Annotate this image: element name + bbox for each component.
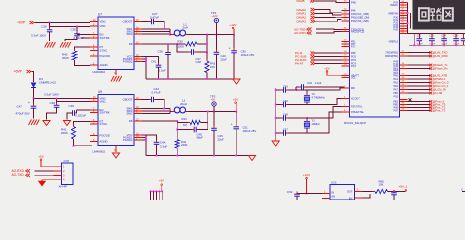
capacitor C4A 3.3uF (VCC bypass 2) xyxy=(146,135,157,142)
svg-text:C52: C52 xyxy=(287,190,293,194)
svg-text:2uH: 2uH xyxy=(183,26,188,30)
wire input rail to U9 VIN xyxy=(34,98,91,100)
junction rail left xyxy=(413,44,415,46)
wire OUT to resistor xyxy=(363,191,376,193)
svg-text:+12V: +12V xyxy=(229,23,236,27)
wire PA-AT to MCU xyxy=(315,63,342,65)
wire +12V output rail xyxy=(207,34,234,36)
node @Rxx-On_1 xyxy=(429,85,432,88)
ground (hatched) under C30 xyxy=(60,42,71,48)
node @Pxxx-2 xyxy=(429,100,432,103)
capacitor C40 22uF (output) xyxy=(215,35,217,53)
capacitor C39 100uF 25V (output bulk) xyxy=(233,35,235,51)
IC U13 LDO regulator xyxy=(330,185,355,201)
junction switch node xyxy=(163,28,165,30)
wire DAVA3 to MCU xyxy=(315,20,342,22)
capacitor C48b 10pF (XTAL) xyxy=(276,117,283,119)
svg-text:AO-TXD: AO-TXD xyxy=(12,173,25,177)
U12 right pin stub @LIN_ATB xyxy=(400,75,408,77)
U12 right pin stub @Pxxx-2 xyxy=(400,101,408,103)
svg-text:20uH: 20uH xyxy=(180,102,187,106)
U12 right pin stub @LIN_TXD xyxy=(400,52,408,54)
svg-text:AO-RXD: AO-RXD xyxy=(12,169,25,173)
capacitor C41 2.2uF (VCC bypass) xyxy=(146,57,159,66)
junction rail at +12V flag xyxy=(233,34,235,36)
wire SW pins to switch node 2 xyxy=(142,108,170,110)
capacitor C26 3.3uF 100V xyxy=(49,23,51,30)
capacitor C48 3.3uF xyxy=(56,102,58,106)
capacitor C52 (LDO input) xyxy=(297,193,307,195)
wire to node @LIN_ATB xyxy=(408,75,431,77)
junction switch node 2 xyxy=(163,108,165,110)
wire XCIN row to MCU pin xyxy=(296,88,350,90)
wire bypass pins to vertical bus xyxy=(407,3,409,34)
resistor R43 1M (feedback top 2) xyxy=(177,121,190,123)
junction R41 bottom xyxy=(73,145,75,147)
U12 right pin stub @Rxx-On_3 xyxy=(400,82,408,84)
svg-text:+: + xyxy=(229,46,231,50)
capacitor C37 CAP (feedforward) xyxy=(177,44,191,52)
svg-text:C41: C41 xyxy=(151,59,157,63)
title text 回路図 (kanji drawn as strokes) xyxy=(419,8,453,21)
resistor R66 (output) xyxy=(375,190,388,194)
svg-text:C47: C47 xyxy=(17,104,23,108)
svg-text:100K: 100K xyxy=(178,45,185,49)
junction divider mid xyxy=(206,43,208,45)
svg-text:2.2uF: 2.2uF xyxy=(159,69,166,73)
junction at output cap xyxy=(393,191,395,193)
node @I-LIM xyxy=(429,92,432,95)
ground (filled arrow) under CN7 wire xyxy=(38,181,45,186)
ground (hatched) under C47 xyxy=(29,120,40,126)
svg-text:CN7: CN7 xyxy=(64,159,70,163)
wire resistor to +5V_1 xyxy=(388,191,406,193)
capacitor C49 0.022uF on EN xyxy=(77,109,91,111)
svg-text:1.0uF: 1.0uF xyxy=(315,81,322,85)
U12 right pin stub @I-LIM xyxy=(400,92,408,94)
svg-text:PA-AT: PA-AT xyxy=(295,62,304,66)
svg-text:C45: C45 xyxy=(283,84,288,88)
node @LIN_ATB xyxy=(429,74,432,77)
capacitor C38 2.2uF on FB wire xyxy=(167,44,169,53)
svg-text:PGND2: PGND2 xyxy=(123,60,133,64)
svg-text:10K: 10K xyxy=(379,183,384,187)
diode D4 CMMR1U-02 xyxy=(31,83,36,88)
svg-text:VIN2: VIN2 xyxy=(100,20,107,24)
wire VIN1 branch section 2 xyxy=(56,99,58,102)
capacitor C44 0.47uF (bootstrap 2) xyxy=(142,99,151,101)
svg-text:22uF: 22uF xyxy=(218,138,225,142)
svg-text:0.47uF: 0.47uF xyxy=(150,15,159,19)
svg-text:Y2: Y2 xyxy=(312,92,316,96)
node @Pxx_T1 xyxy=(429,109,432,112)
svg-text:+6VP: +6VP xyxy=(14,70,23,74)
capacitor C45b 10pF (XCIN) xyxy=(276,89,283,91)
svg-text:AGND: AGND xyxy=(100,140,108,144)
svg-text:+5V: +5V xyxy=(211,98,216,101)
svg-text:P35: P35 xyxy=(394,28,399,31)
svg-text:+5V: +5V xyxy=(324,66,329,70)
node @Flash_Tx xyxy=(429,64,432,67)
wire DAVA2 to MCU xyxy=(315,16,342,18)
title block (dark box) xyxy=(413,0,465,30)
capacitor C46 10pF (XCOUT) xyxy=(276,104,283,106)
svg-text:R39: R39 xyxy=(178,40,184,44)
wire +5V to CN7 pin1 xyxy=(41,160,54,166)
U12 right pin stub @Rxx-On_1 xyxy=(400,85,408,87)
svg-text:+: + xyxy=(28,101,30,105)
wire to node @Flash_Rx xyxy=(408,68,431,70)
svg-text:10K: 10K xyxy=(210,65,215,69)
wire EXTAL row to MCU pin xyxy=(307,112,350,133)
svg-text:XCOUT: XCOUT xyxy=(351,98,360,101)
U9 AGND pad pin to ground xyxy=(115,146,117,153)
U12 right pin stubs and numbers (bypass group) xyxy=(400,2,408,4)
U7 left pin stubs with numbers xyxy=(90,21,98,23)
wire EN to C30 node xyxy=(77,34,90,36)
wire BY return xyxy=(363,194,371,198)
svg-text:AGND: AGND xyxy=(100,63,108,67)
capacitor C33 0.1uF (bypass) xyxy=(431,34,433,39)
svg-text:U7: U7 xyxy=(98,13,102,17)
svg-text:1M: 1M xyxy=(183,123,188,127)
svg-text:OUT: OUT xyxy=(347,190,353,194)
wire divider 2 to +5V rail xyxy=(207,112,209,123)
wire SS/TRK stub link xyxy=(81,37,90,39)
svg-text:VIN1: VIN1 xyxy=(100,24,107,28)
node @PWM-1 xyxy=(429,78,432,81)
node @LIN_TXD xyxy=(429,51,432,54)
svg-text:0.47uF: 0.47uF xyxy=(152,90,161,94)
svg-text:+12V: +12V xyxy=(212,15,218,18)
svg-text:+5V_1: +5V_1 xyxy=(399,184,408,188)
capacitor C4D 68pF (feedforward 2) xyxy=(177,123,194,130)
junction at C26 top xyxy=(49,22,51,24)
wire +5V drop to header xyxy=(161,185,163,191)
node @Flash_Rx xyxy=(429,67,432,70)
U7 right pin stubs with numbers xyxy=(134,21,142,23)
resistor R39 100K (feedback top) xyxy=(177,43,186,45)
wire +12V to U13 IN xyxy=(306,179,308,194)
ground (hatched) under U7 xyxy=(111,76,122,82)
wire DAVB to MCU xyxy=(315,1,342,3)
wire to node @Pxx_T5 xyxy=(408,104,431,106)
wire PC-SUB to MCU xyxy=(315,56,342,58)
wire XCOUT row to MCU pin xyxy=(307,99,350,105)
wire header pins going off-image xyxy=(150,191,152,200)
svg-text:CMMR1U-02: CMMR1U-02 xyxy=(39,81,56,85)
svg-text:3.3uF 100V: 3.3uF 100V xyxy=(31,33,46,37)
svg-text:200K: 200K xyxy=(61,131,68,135)
junctions on ground bus 2 xyxy=(156,155,158,157)
svg-text:P40(VSS_USB): P40(VSS_USB) xyxy=(351,20,369,23)
ground (arrow) under C48 xyxy=(43,121,50,126)
ground (arrow) at bus end xyxy=(234,78,236,80)
wire section-2 ground bus xyxy=(146,155,252,157)
U12 right pin stub @Pxx_T2 xyxy=(400,107,408,109)
node @Rxx-On_3 xyxy=(429,81,432,84)
U12 right pin stub @PWM-1 xyxy=(400,78,408,80)
node @LCN_IN xyxy=(429,88,432,91)
svg-text:C26: C26 xyxy=(41,25,47,29)
svg-text:22uF: 22uF xyxy=(221,57,228,61)
wire bypass rail top xyxy=(414,33,465,35)
junction PGND ties 2 xyxy=(145,137,147,139)
svg-text:Y1: Y1 xyxy=(312,118,316,122)
svg-text:3.3uF 100V: 3.3uF 100V xyxy=(44,92,59,96)
wire vertical bus to cap bank rail xyxy=(408,33,415,35)
capacitor C43 1.0uF (VBATT) xyxy=(295,87,297,90)
wire to node @LIN_TXD xyxy=(408,52,431,54)
capacitor C27 0.47uF (bootstrap) xyxy=(142,21,151,23)
junction at C48 top xyxy=(56,98,58,100)
svg-text:C30: C30 xyxy=(71,28,77,32)
wire XTAL row to MCU pin xyxy=(307,107,350,119)
svg-text:C46: C46 xyxy=(283,99,288,103)
wire header bus (cut at bottom edge) xyxy=(151,190,163,192)
U12 right pin stub @Flash_Rx xyxy=(400,68,408,70)
wire DAVA0 to MCU xyxy=(315,10,342,13)
svg-text:RX231_64LQFP: RX231_64LQFP xyxy=(344,121,366,125)
svg-text:IN: IN xyxy=(332,190,335,194)
resistor R42 10K (feedback bottom) xyxy=(206,52,208,61)
capacitor C34 0.1uF (bypass) xyxy=(443,34,445,39)
wire VCC and PGND returns xyxy=(142,56,146,58)
wire AO-RXD to MCU xyxy=(316,32,342,33)
connector CN7 XH-4P xyxy=(62,163,74,185)
svg-text:R43: R43 xyxy=(182,117,188,121)
wire bypass rail bottom (ground) xyxy=(409,44,465,46)
capacitor C53 (LDO output) xyxy=(393,192,395,193)
svg-text:P87: P87 xyxy=(394,110,399,113)
no-connect marker xyxy=(409,98,412,101)
wire AO-TXD to CN7 xyxy=(35,174,54,176)
wire divider to +12V rail xyxy=(206,35,208,53)
svg-text:C47: C47 xyxy=(283,127,288,131)
microcontroller U12 RX231 64LQFP (top cut off) xyxy=(350,0,400,117)
capacitor C36 0.1uF (bypass) xyxy=(455,34,457,39)
wire +5V output rail xyxy=(214,111,236,113)
svg-text:C33: C33 xyxy=(429,35,434,38)
svg-text:+5V: +5V xyxy=(233,98,238,102)
svg-text:SS/TRK: SS/TRK xyxy=(100,36,110,40)
junction rail at FB divider xyxy=(206,34,208,36)
wire to node @Pxxx-2 xyxy=(408,101,431,103)
svg-text:C48: C48 xyxy=(50,101,56,105)
inductor L2 20uH xyxy=(170,111,174,113)
ground (arrow) under U9 xyxy=(112,153,119,158)
svg-text:SYNC: SYNC xyxy=(100,122,108,126)
IC U9 buck regulator LM46002 xyxy=(98,95,134,146)
IC U7 buck regulator LM46002 xyxy=(98,17,134,70)
node @LIN_RXD xyxy=(429,55,432,58)
wire SW pins to switch node xyxy=(142,28,170,30)
svg-text:PC3: PC3 xyxy=(351,65,356,68)
svg-text:100uF 25V: 100uF 25V xyxy=(243,129,257,133)
capacitor C47b 10pF (EXTAL) xyxy=(276,132,283,134)
svg-text:0.022uF: 0.022uF xyxy=(76,113,87,117)
wire crystal ground bus (vertical) xyxy=(275,88,277,141)
svg-text:VCL: VCL xyxy=(351,77,356,80)
svg-text:4.7456MHz: 4.7456MHz xyxy=(312,95,326,99)
crystal Y2 4.7456MHz (sub-clock) xyxy=(306,90,308,95)
wire to node @Pxx_T1 xyxy=(408,110,431,112)
wire FB pin to divider xyxy=(142,43,177,45)
svg-text:+5V: +5V xyxy=(159,179,164,183)
svg-text:+: + xyxy=(231,122,233,126)
svg-text:SS/TRK: SS/TRK xyxy=(100,111,110,115)
svg-text:470uF 50V: 470uF 50V xyxy=(16,112,30,116)
capacitor C51 100uF 25V (output bulk 2) xyxy=(235,112,237,127)
U9 right pin stubs with numbers xyxy=(134,99,142,101)
junction bypass bus xyxy=(407,12,409,14)
resistor R40 200K (RT) xyxy=(75,47,91,51)
svg-text:P36/EXTAL: P36/EXTAL xyxy=(351,111,364,114)
U12 right pin stub @Pxx_T5 xyxy=(400,104,408,106)
wire +6VP to U7 VIN2 xyxy=(35,22,91,24)
ground (arrow) under C49 xyxy=(63,121,70,126)
svg-text:PGND2: PGND2 xyxy=(123,138,133,142)
svg-text:C48: C48 xyxy=(283,112,288,116)
svg-text:FB: FB xyxy=(129,42,133,46)
svg-text:16MHz: 16MHz xyxy=(312,122,321,126)
junction crystal row1 xyxy=(275,89,277,91)
svg-text:100uF 25V: 100uF 25V xyxy=(241,53,255,57)
svg-text:68pF: 68pF xyxy=(197,136,204,140)
capacitor C45 22uF (output 2) xyxy=(213,112,215,129)
svg-text:VIN1: VIN1 xyxy=(100,100,107,104)
svg-text:C49: C49 xyxy=(69,104,75,108)
junction FB node 2 xyxy=(176,120,178,122)
svg-text:PGOOD: PGOOD xyxy=(100,134,110,138)
ground (hatched) under C26 xyxy=(45,42,56,48)
junction rail at C40 xyxy=(216,34,218,36)
svg-text:SW3: SW3 xyxy=(126,112,133,116)
ground (arrow) at bus 2 end xyxy=(248,156,255,161)
wire to node @Rxx-On_3 xyxy=(408,82,431,84)
svg-text:C32: C32 xyxy=(417,35,422,38)
svg-text:RXD1(PC2): RXD1(PC2) xyxy=(351,31,364,34)
svg-text:SYNC: SYNC xyxy=(100,49,108,53)
svg-text:PGOOD: PGOOD xyxy=(100,54,110,58)
junction C38 tap xyxy=(167,43,169,45)
wire VIN1 branch xyxy=(49,23,51,27)
svg-text:LM46002: LM46002 xyxy=(93,149,106,153)
wire CN7 pin4 to ground xyxy=(42,180,54,181)
svg-text:DAVB: DAVB xyxy=(297,0,305,3)
U13 pin stubs xyxy=(322,193,330,195)
wire input to IC xyxy=(307,193,323,195)
svg-text:P55: P55 xyxy=(394,96,399,99)
svg-text:C43: C43 xyxy=(307,81,312,85)
junction PGND ties xyxy=(145,58,147,60)
svg-text:CBOOT: CBOOT xyxy=(123,98,133,102)
junction divider 2 xyxy=(207,111,209,113)
node @Pxx_T5 xyxy=(429,103,432,106)
svg-text:SW3: SW3 xyxy=(126,32,133,36)
svg-text:3.3uF: 3.3uF xyxy=(160,145,167,149)
wire to node @LIN_RXD xyxy=(408,55,431,57)
svg-text:@Pxx_T1: @Pxx_T1 xyxy=(433,109,446,113)
svg-text:+12V: +12V xyxy=(303,173,310,177)
wire FB pin 2 to divider xyxy=(142,120,177,122)
inductor L1 2uH xyxy=(170,34,174,36)
wire to node @Pxx_T2 xyxy=(408,107,431,109)
svg-text:U13: U13 xyxy=(331,181,337,185)
junctions on header bus xyxy=(150,190,152,192)
svg-text:EN: EN xyxy=(332,195,336,199)
junction LDO input xyxy=(306,193,308,195)
svg-text:BY: BY xyxy=(349,197,353,200)
wire PC-R to MCU xyxy=(315,52,342,54)
wire PC-RAS to MCU xyxy=(315,59,342,61)
svg-text:XH-4P: XH-4P xyxy=(59,185,68,189)
svg-text:VREFH0: VREFH0 xyxy=(388,12,398,15)
wire to node @PWM-1 xyxy=(408,78,431,80)
svg-text:P37/XTAL: P37/XTAL xyxy=(351,106,363,109)
svg-text:@LIN_RXD: @LIN_RXD xyxy=(433,54,448,58)
svg-text:P4B: P4B xyxy=(351,2,356,5)
svg-text:CBOOT: CBOOT xyxy=(123,20,133,24)
svg-text:200K: 200K xyxy=(62,56,69,60)
U12 right pin stub @LCN_IN xyxy=(400,89,408,91)
svg-text:U9: U9 xyxy=(98,90,102,94)
U9 left pin stubs with numbers xyxy=(90,98,98,100)
wire VCC and PGND returns 2 xyxy=(142,134,146,136)
svg-text:RXD9(PB2): RXD9(PB2) xyxy=(385,55,398,58)
resistor R41 200K (RT section 2) xyxy=(74,122,91,127)
svg-text:240K: 240K xyxy=(181,143,188,147)
wire AO-TXD-2 to MCU xyxy=(316,28,342,30)
ground (arrow) crystal bus xyxy=(272,141,279,146)
resistor R42 240K (feedback bottom 2) xyxy=(176,130,178,140)
capacitor C47 470uF 50V (input bulk) xyxy=(33,99,35,107)
capacitor C30 0.022uF xyxy=(76,27,78,34)
svg-text:CAP: CAP xyxy=(196,60,202,64)
capacitor C32 0.1uF (bypass) xyxy=(418,34,420,39)
svg-text:C34: C34 xyxy=(442,35,447,38)
U7 AGND pad pin to ground xyxy=(115,70,117,76)
junction at C30 top xyxy=(76,26,78,28)
crystal Y1 16MHz (main clock) xyxy=(306,118,308,121)
svg-text:FB: FB xyxy=(129,119,133,123)
svg-text:+5V: +5V xyxy=(38,155,43,159)
svg-text:@I-LIM: @I-LIM xyxy=(433,91,443,95)
svg-text:@Flash_Rx: @Flash_Rx xyxy=(433,67,449,71)
wire to node @Rxx-On_1 xyxy=(408,85,431,87)
svg-text:DAVA3: DAVA3 xyxy=(297,19,307,23)
U12 left pin stubs and numbers xyxy=(342,2,350,4)
wire to node @I-LIM xyxy=(408,92,431,94)
svg-text:C38: C38 xyxy=(158,49,164,53)
wire to node @Flash_Tx xyxy=(408,64,431,66)
svg-text:VREFL: VREFL xyxy=(390,4,399,7)
junction rail 2 at C45 xyxy=(213,111,215,113)
wire to node @LCN_IN xyxy=(408,89,431,91)
CN7 pin stubs 1-4 xyxy=(54,166,62,168)
wire DAVA1 to MCU xyxy=(315,14,342,16)
U12 right pin stub @LIN_RXD xyxy=(400,55,408,57)
junction at D4 output xyxy=(33,98,35,100)
svg-text:VREFL0: VREFL0 xyxy=(389,41,399,44)
svg-text:P17: P17 xyxy=(351,46,356,49)
wire AO-RXD to CN7 xyxy=(35,170,54,172)
junction +5V drop xyxy=(235,111,237,113)
wire +5V to VBATT pin xyxy=(327,72,350,75)
wire +6VP to diode D4 xyxy=(32,72,34,83)
junctions on ground bus xyxy=(158,78,160,80)
capacitor C37b (cut at right edge) xyxy=(463,34,465,39)
